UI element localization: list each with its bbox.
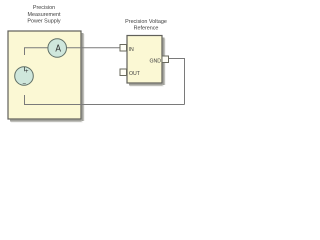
pin IN pad [120,45,127,52]
power supply box PS1 [8,31,84,122]
svg-text:Power Supply: Power Supply [27,18,61,24]
svg-text:Precision: Precision [33,5,55,11]
svg-text:IN: IN [129,47,134,53]
pin GND label [149,58,161,64]
wire GND to bottom [169,59,185,105]
ammeter A1 [48,39,67,58]
svg-text:Precision Voltage: Precision Voltage [125,19,167,25]
svg-text:Measurement: Measurement [28,12,61,18]
voltage reference box U1 [127,36,165,87]
svg-text:−: − [22,81,26,88]
wire bottom return [25,95,185,105]
svg-text:+: + [25,68,29,75]
svg-text:A: A [55,42,61,54]
wire top: source to IN [25,48,121,55]
pin IN label [129,47,134,53]
voltage reference label [125,19,167,32]
svg-text:Reference: Reference [134,26,159,32]
pin OUT pad [120,69,127,76]
svg-text:OUT: OUT [129,71,141,77]
voltage source V1 [15,67,34,88]
svg-text:GND: GND [149,58,161,64]
pin GND pad [162,56,169,63]
pin OUT label [129,71,141,77]
power supply label [27,5,61,24]
